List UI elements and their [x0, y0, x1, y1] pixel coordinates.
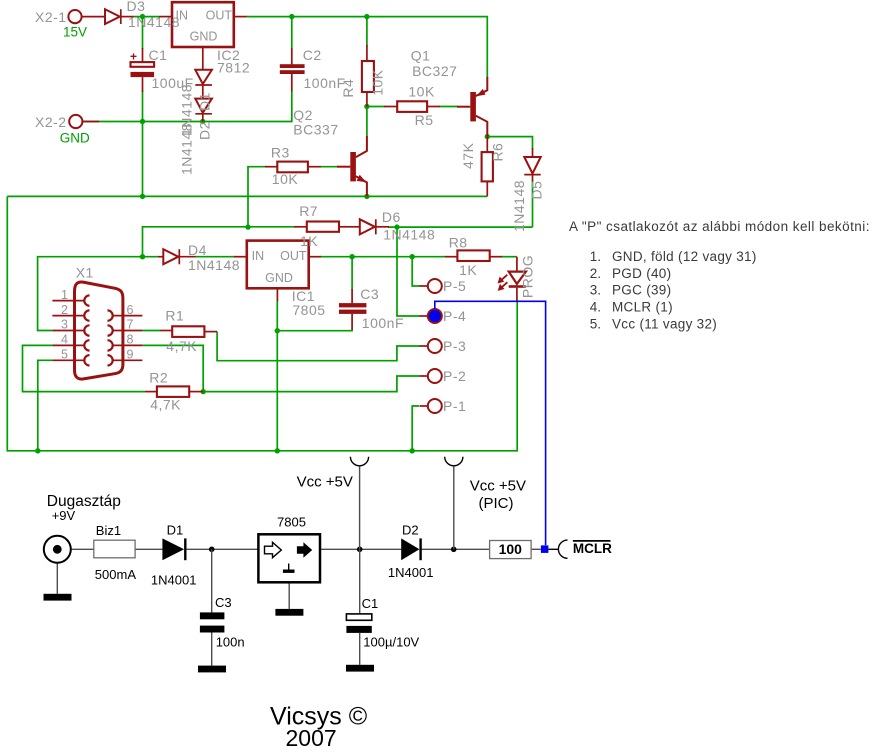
capacitor C3 bottom 100n — [200, 612, 225, 632]
svg-text:1K: 1K — [459, 262, 477, 278]
svg-text:2.: 2. — [590, 266, 601, 281]
svg-text:X2-2: X2-2 — [35, 114, 67, 130]
resistor R7 1K — [294, 222, 352, 232]
svg-text:+9V: +9V — [52, 508, 76, 523]
svg-text:P-5: P-5 — [443, 278, 466, 294]
svg-text:4.: 4. — [590, 300, 601, 315]
svg-text:7805: 7805 — [292, 302, 325, 318]
junction OUT / P-5 feed — [410, 254, 415, 259]
svg-text:IN: IN — [252, 249, 265, 263]
svg-text:R8: R8 — [449, 235, 468, 251]
svg-text:BC337: BC337 — [293, 122, 338, 138]
wire net V12: IC2 OUT rail to Q1 emitter — [246, 17, 487, 78]
X1 pin 5 — [52, 355, 89, 365]
7805 input arrow outline — [265, 542, 282, 557]
voltage regulator IC1 7805 — [234, 241, 321, 301]
svg-text:C2: C2 — [303, 47, 322, 63]
pad P-3 — [420, 339, 442, 353]
svg-text:9: 9 — [127, 348, 134, 362]
svg-text:5.: 5. — [590, 317, 601, 332]
capacitor C3 100nF — [339, 289, 366, 330]
junction C1 bottom GND rail — [140, 119, 145, 124]
wire D4 cathode to IC1 IN — [195, 256, 235, 258]
junction D3/C1/IC2-IN — [140, 14, 145, 19]
wire IC1 GND down to bottom rail — [276, 300, 278, 451]
wire R4 junction to R5 left — [367, 106, 385, 108]
svg-text:OUT: OUT — [280, 249, 307, 263]
svg-text:A "P" csatlakozót az alábbi mó: A "P" csatlakozót az alábbi módon kell b… — [569, 219, 870, 234]
ground symbol below jack — [44, 594, 72, 601]
wire C2 top to V12 rail — [291, 17, 293, 49]
svg-text:D1: D1 — [197, 92, 213, 111]
svg-text:10K: 10K — [370, 69, 386, 96]
junction GND rail to GND2 — [140, 194, 145, 199]
wire net GND2 line Q2 emitter / R6 bottom — [7, 195, 487, 197]
diode D3 — [105, 9, 134, 24]
resistor R6 47K — [482, 137, 493, 197]
connector cup MCLR — [558, 540, 567, 558]
wire net VIN: junction down to C1 top — [142, 17, 144, 49]
svg-text:7805: 7805 — [277, 515, 306, 530]
wire P-3 feed from R1 output — [217, 332, 420, 361]
svg-text:4: 4 — [61, 333, 68, 347]
wire P-4 feed from D6 junction — [397, 227, 420, 316]
svg-text:1.: 1. — [590, 249, 601, 264]
wire 100 to MCLR square — [531, 548, 541, 550]
wire P-5 feed from OUT junction — [412, 257, 420, 286]
wire D5 bottom to net MCLR drive row — [532, 180, 534, 227]
svg-text:7812: 7812 — [217, 60, 250, 76]
diode D4 1N4148 — [158, 249, 196, 264]
svg-text:Vcc +5V: Vcc +5V — [297, 474, 353, 491]
junction P-1 on bottom rail — [410, 448, 415, 453]
wire OUT junction down to C3 top — [351, 257, 353, 290]
X1 pin 2 — [52, 310, 89, 320]
wire IC1 OUT row to R8 — [320, 256, 446, 258]
resistor R2 4,7K — [145, 386, 203, 397]
svg-text:1: 1 — [61, 288, 68, 302]
LED PROG — [498, 257, 526, 301]
junction Q1 collector / R6 — [485, 134, 490, 139]
X1 pin 6 — [108, 310, 143, 320]
svg-text:C1: C1 — [149, 47, 168, 63]
svg-text:X2-1: X2-1 — [35, 9, 67, 25]
note item 1. — [590, 249, 757, 264]
svg-text:1N4148: 1N4148 — [188, 257, 240, 273]
transistor Q1 BC327 — [457, 77, 487, 137]
svg-text:100: 100 — [499, 541, 523, 557]
barrel jack Dugasztap — [44, 536, 71, 563]
svg-text:GND: GND — [60, 131, 90, 146]
svg-text:1N4148: 1N4148 — [128, 14, 180, 30]
svg-text:(PIC): (PIC) — [479, 495, 514, 512]
svg-text:C3: C3 — [360, 286, 379, 302]
svg-text:C3: C3 — [215, 595, 232, 610]
svg-text:OUT: OUT — [206, 9, 233, 23]
svg-text:4,7K: 4,7K — [150, 397, 181, 413]
svg-text:+: + — [130, 50, 137, 64]
wire net VIN top: D3 cathode to IC2 IN — [133, 16, 159, 18]
svg-text:D2: D2 — [197, 121, 213, 140]
resistor R4 10K — [362, 45, 374, 107]
wire Q1 collector junction to D5 top — [487, 137, 532, 149]
junction C1 node — [357, 547, 363, 553]
svg-text:P-3: P-3 — [443, 338, 466, 354]
svg-text:D4: D4 — [188, 242, 207, 258]
wire jack ground stub — [56, 563, 58, 594]
label MCLR with overline — [573, 541, 612, 556]
X1 pin 1 — [52, 295, 89, 305]
ground symbol below C1 — [346, 665, 374, 672]
wire square to MCLR cup — [548, 548, 558, 550]
wire pin7 to R1 left — [142, 330, 160, 332]
wire R4 bottom junction to Q2 collector — [366, 107, 368, 138]
X1 pin 4 — [52, 340, 89, 350]
X1 pin 3 — [52, 325, 89, 335]
pad P-4 — [420, 309, 442, 323]
svg-text:C1: C1 — [362, 596, 379, 611]
svg-text:10K: 10K — [408, 84, 435, 100]
transistor Q2 BC337 — [337, 136, 367, 196]
svg-text:R5: R5 — [415, 112, 434, 128]
junction IC1 GND / C3 bottom — [275, 328, 280, 333]
svg-text:D3: D3 — [127, 0, 146, 14]
wire C3 top lead — [211, 549, 213, 612]
wire D6 cathode to D5 bottom row — [388, 226, 533, 228]
svg-text:100µ/10V: 100µ/10V — [363, 635, 419, 650]
wire blue MCLR net P-4 to series resistor — [435, 301, 546, 545]
svg-text:P-4: P-4 — [443, 308, 466, 324]
X1 pin 9 — [108, 355, 143, 365]
wire C3 bottom corner to IC1 GND vertical — [277, 329, 352, 331]
svg-text:X1: X1 — [76, 265, 94, 281]
svg-text:D2: D2 — [402, 523, 419, 538]
wire R5 right to Q1 base — [439, 106, 458, 108]
wire Vcc +5V (PIC) riser to cup — [453, 467, 455, 550]
svg-text:1N4001: 1N4001 — [388, 565, 434, 580]
svg-text:1N4148: 1N4148 — [511, 180, 527, 232]
svg-text:500mA: 500mA — [95, 567, 137, 582]
wire D1 to 7805 input — [186, 548, 258, 550]
svg-text:Biz1: Biz1 — [96, 523, 121, 538]
wire Vcc +5V riser to cup — [359, 467, 361, 550]
svg-text:Vcc +5V: Vcc +5V — [470, 478, 526, 495]
resistor R1 4,7K — [160, 326, 217, 337]
voltage regulator IC2 7812 — [159, 2, 247, 70]
resistor R5 10K — [384, 101, 440, 112]
wire 7805 out to D2 — [320, 548, 401, 550]
capacitor C1 bottom 100u/10V — [346, 614, 371, 633]
svg-text:3.: 3. — [590, 283, 601, 298]
junction C3 node — [209, 547, 215, 553]
wire pin5 to bottom GND rail — [38, 360, 53, 451]
wire C1 bottom lead — [359, 633, 361, 665]
wire R4 top to V12 rail — [366, 17, 368, 46]
svg-text:D5: D5 — [528, 181, 544, 200]
wire D2 to resistor 100 — [422, 548, 490, 550]
wire R3 right to Q2 base — [320, 166, 338, 168]
svg-text:2007: 2007 — [286, 725, 337, 751]
junction pin5 on bottom rail — [35, 448, 40, 453]
node blue MCLR tap square — [541, 545, 549, 553]
X1 pin 7 — [108, 325, 143, 335]
note item 5. — [590, 317, 717, 332]
junction C2 top — [289, 14, 294, 19]
wire R7 row from D4 link — [143, 227, 296, 258]
svg-text:R6: R6 — [490, 143, 506, 162]
wire pin8 to R2 right junction — [142, 345, 203, 391]
svg-text:GND: GND — [190, 30, 218, 44]
svg-text:D1: D1 — [167, 523, 184, 538]
svg-text:4,7K: 4,7K — [166, 338, 197, 354]
X1 pin 8 — [108, 340, 143, 350]
svg-text:R3: R3 — [271, 144, 290, 160]
resistor R3 10K — [265, 162, 321, 173]
wire 7805 gnd lead — [288, 582, 290, 609]
7805 internal ground mark — [283, 564, 295, 572]
svg-text:6: 6 — [127, 303, 134, 317]
svg-text:GND: GND — [265, 271, 293, 285]
junction IC1 GND on bottom rail — [275, 448, 280, 453]
capacitor C1 — [130, 48, 154, 92]
note item 4. — [590, 300, 673, 315]
svg-text:MCLR: MCLR — [573, 541, 612, 556]
resistor 100 MCLR series — [490, 541, 531, 559]
diode D2 1N4148 — [195, 99, 212, 122]
svg-text:Q1: Q1 — [411, 48, 431, 64]
wire C3 bottom lead — [211, 633, 213, 666]
svg-text:100n: 100n — [216, 635, 245, 650]
diode D5 1N4148 — [524, 148, 540, 181]
junction D4 row — [140, 254, 145, 259]
wire pin4 to R2 left — [23, 345, 146, 391]
wire C1 bottom to GND rail to GND2 line — [142, 91, 144, 196]
wire D4 row pin3 link — [38, 257, 158, 331]
junction IC1 OUT / C3 — [349, 254, 354, 259]
regulator box 7805 bottom — [258, 534, 320, 582]
pad P-1 — [420, 399, 442, 413]
svg-text:PGC (39): PGC (39) — [612, 283, 671, 298]
ground symbol below C3 — [198, 666, 226, 673]
svg-text:D6: D6 — [382, 209, 401, 225]
7805 output arrow filled — [297, 542, 312, 557]
svg-text:15V: 15V — [63, 25, 87, 40]
diode D6 1N4148 — [352, 219, 389, 234]
svg-text:7: 7 — [127, 318, 134, 332]
svg-text:PGD (40): PGD (40) — [612, 266, 671, 281]
svg-text:Vcc (11 vagy 32): Vcc (11 vagy 32) — [612, 317, 717, 332]
ground symbol below 7805 — [275, 609, 303, 616]
junction Q2 emitter GND2 — [364, 194, 369, 199]
connector cup Vcc +5V — [350, 457, 368, 466]
svg-text:8: 8 — [127, 333, 134, 347]
pad P-5 — [420, 279, 442, 293]
svg-text:P-2: P-2 — [443, 368, 466, 384]
connector pin X2-1 — [68, 10, 105, 23]
pad P-2 — [420, 369, 442, 383]
resistor R8 1K — [445, 250, 502, 261]
wire GND rail X2-2 to C2 bottom — [83, 91, 292, 122]
connector cup Vcc +5V PIC — [445, 457, 463, 466]
wire P-2 feed from R2 junction — [203, 376, 420, 392]
wire R3 left down to R7 row — [248, 167, 266, 227]
note item 2. — [590, 266, 672, 281]
svg-text:PROG: PROG — [519, 255, 535, 298]
wire P-1 to bottom GND rail — [412, 406, 419, 451]
wire GND left border and bottom rail up to LED bottom — [7, 196, 517, 450]
svg-text:BC327: BC327 — [412, 63, 457, 79]
junction R3 on R7 row — [245, 224, 250, 229]
svg-text:2: 2 — [61, 303, 68, 317]
junction R4/R5/Q2 collector — [364, 104, 369, 109]
svg-text:1N4148: 1N4148 — [383, 227, 435, 243]
svg-text:47K: 47K — [460, 142, 476, 169]
svg-text:GND, föld (12 vagy 31): GND, föld (12 vagy 31) — [612, 249, 757, 264]
diode D1 1N4148 — [195, 70, 212, 99]
wire R8 right to LED top — [501, 256, 517, 258]
svg-text:1N4001: 1N4001 — [151, 573, 197, 588]
junction Vcc PIC node — [451, 547, 457, 553]
svg-text:3: 3 — [61, 318, 68, 332]
svg-text:MCLR (1): MCLR (1) — [612, 300, 673, 315]
diode D1 1N4001 — [162, 538, 185, 560]
svg-text:R2: R2 — [149, 370, 168, 386]
svg-text:1K: 1K — [300, 233, 318, 249]
svg-text:5: 5 — [61, 348, 68, 362]
svg-text:P-1: P-1 — [443, 398, 466, 414]
wire C1 top lead — [359, 549, 361, 614]
junction D2 bottom GND rail — [200, 119, 205, 124]
svg-text:10K: 10K — [272, 171, 299, 187]
diode D2 1N4001 — [401, 538, 420, 560]
svg-text:R4: R4 — [340, 79, 356, 98]
junction D6 cathode node — [394, 224, 399, 229]
capacitor C2 100nF — [280, 48, 305, 92]
note item 3. — [590, 283, 672, 298]
fuse Biz1 500mA — [94, 540, 135, 558]
connector pin X2-2 — [69, 115, 99, 128]
wire fuse to D1 — [135, 548, 162, 550]
junction R4 top — [364, 14, 369, 19]
wire jack to fuse — [71, 548, 94, 550]
svg-text:R1: R1 — [165, 308, 184, 324]
svg-text:R7: R7 — [299, 203, 318, 219]
junction R2 right / pin8 — [201, 389, 206, 394]
connector X1 DB9 shell — [75, 282, 123, 379]
svg-text:100nF: 100nF — [362, 315, 404, 331]
svg-text:1N4148: 1N4148 — [179, 123, 195, 175]
